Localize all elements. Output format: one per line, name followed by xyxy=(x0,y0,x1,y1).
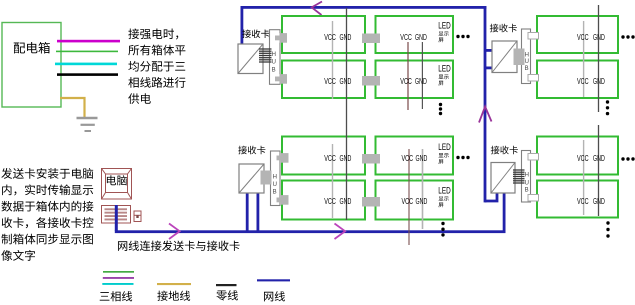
wire neutral N (black) xyxy=(57,73,118,76)
svg-text:GND: GND xyxy=(415,77,427,86)
svg-text:U: U xyxy=(273,182,277,188)
wire net: U4 out jog xyxy=(485,193,497,201)
svg-text:VCC: VCC xyxy=(577,154,589,163)
svg-text:LED: LED xyxy=(438,20,451,30)
legend label 网线 xyxy=(264,291,285,301)
svg-text:GND: GND xyxy=(340,154,352,163)
wire net: riser out of card U2 pin-out xyxy=(257,193,260,231)
wire VCC bus col1 bottom (gray) xyxy=(332,144,334,218)
LED cabinet box L1 (col1 row1) xyxy=(282,16,365,53)
svg-text:LED: LED xyxy=(438,185,451,195)
svg-text:LED: LED xyxy=(438,64,451,74)
svg-text:H: H xyxy=(273,175,277,181)
wire VCC bus col2 top (maroon) xyxy=(407,42,409,110)
receiver card U1 (top-left) with HUB xyxy=(238,29,287,84)
svg-text:B: B xyxy=(273,190,277,196)
annotation: three-phase supply note xyxy=(128,28,185,103)
svg-text:B: B xyxy=(525,66,529,72)
wire net: right vertical bus xyxy=(484,6,487,202)
arrow right on bottom bus 1 xyxy=(169,224,180,240)
ellipsis right of bottom col3 row1 xyxy=(621,157,624,160)
wire GND bus col2 bottom (gray) xyxy=(422,149,424,229)
legend net line swatch xyxy=(257,279,290,281)
connector tab col1-col2 row1 top xyxy=(362,34,380,44)
wire VCC bus col3 bottom (gray) xyxy=(583,140,585,215)
svg-text:VCC: VCC xyxy=(577,33,589,42)
legend neutral line swatch xyxy=(216,284,237,286)
annotation: sender card note xyxy=(1,168,93,261)
wire earth ground (olive) xyxy=(60,98,85,117)
wire net: riser into card U2 pin-in xyxy=(246,193,249,231)
svg-text:U: U xyxy=(525,59,529,65)
svg-text:VCC: VCC xyxy=(400,77,412,86)
wire phase L2 (green) xyxy=(56,51,118,53)
svg-text:VCC: VCC xyxy=(324,197,336,206)
wire net: top bus xyxy=(241,6,487,9)
wire GND bus col3 top (dark) xyxy=(598,5,600,112)
svg-text:U: U xyxy=(272,60,276,66)
receiver card U2 (bottom-left) with HUB xyxy=(238,146,288,206)
svg-text:VCC: VCC xyxy=(324,33,336,42)
receiver card U4 (bottom-right) with HUB xyxy=(491,146,539,202)
LED cabinet box L3 (col1 row3) xyxy=(282,137,365,175)
svg-text:VCC: VCC xyxy=(400,33,412,42)
svg-text:VCC: VCC xyxy=(577,77,589,86)
legend label 接地线 xyxy=(157,291,190,301)
wire GND bus col3 bottom (dark) xyxy=(598,125,600,216)
label LED display screen #4 xyxy=(438,185,451,207)
legend label 三相线 xyxy=(100,291,132,301)
LED cabinet box L11 (col3 row3) xyxy=(537,137,618,175)
svg-text:GND: GND xyxy=(593,154,605,163)
distribution box 配电箱 xyxy=(2,23,61,108)
svg-text:U: U xyxy=(525,181,529,187)
svg-text:GND: GND xyxy=(416,154,428,163)
wire net: stub to card U3 pin-in xyxy=(485,49,492,52)
wire net: bottom bus xyxy=(115,230,506,233)
computer mouse xyxy=(134,211,141,222)
wire VCC bus col2 bottom (maroon) xyxy=(408,149,410,245)
svg-text:B: B xyxy=(272,68,276,74)
svg-text:GND: GND xyxy=(340,197,352,206)
legend ground line swatch xyxy=(157,283,191,285)
svg-text:B: B xyxy=(525,188,529,194)
connector tab col1-col2 row1 bottom xyxy=(362,154,380,164)
svg-text:VCC: VCC xyxy=(577,197,589,206)
arrow up on right bus xyxy=(479,107,492,123)
svg-text:GND: GND xyxy=(593,33,605,42)
ellipsis right of L11 (more cabinets) xyxy=(621,35,624,38)
ellipsis right of bottom col2 row1 xyxy=(456,156,459,159)
LED cabinet box L10 (col3 row2) xyxy=(537,61,618,99)
svg-text:GND: GND xyxy=(593,197,605,206)
ellipsis right of L3 (more cabinets) xyxy=(456,35,459,38)
ellipsis below col3 row2 bottom xyxy=(606,221,609,224)
wire net: drop to card U1 xyxy=(241,6,244,44)
LED cabinet box L6 (col2 row2) xyxy=(376,61,454,99)
LED cabinet box L4 (col1 row4) xyxy=(282,181,365,220)
svg-text:H: H xyxy=(525,173,529,179)
receiver card U3 (top-right) with HUB xyxy=(490,24,539,84)
svg-text:VCC: VCC xyxy=(324,154,336,163)
svg-text:VCC: VCC xyxy=(324,77,336,86)
label LED display screen #3 xyxy=(438,142,451,164)
svg-text:GND: GND xyxy=(593,77,605,86)
computer monitor xyxy=(102,169,132,200)
wire GND bus col1 (dark) xyxy=(346,8,348,220)
svg-text:VCC: VCC xyxy=(402,154,414,163)
legend label 零线 xyxy=(216,290,238,300)
svg-text:LED: LED xyxy=(438,142,451,152)
LED cabinet box L9 (col3 row1) xyxy=(537,16,618,53)
wire VCC bus col3 top (gray) xyxy=(583,21,585,97)
LED cabinet box L5 (col2 row1) xyxy=(376,16,454,53)
svg-text:GND: GND xyxy=(340,33,352,42)
svg-text:H: H xyxy=(525,53,529,59)
legend three-phase lines swatch xyxy=(102,271,134,285)
wire VCC bus col1 top (gray) xyxy=(332,21,334,99)
caption: 网线连接发送卡与接收卡 xyxy=(118,241,240,251)
wire net: riser into card U4 pin-in xyxy=(503,193,506,231)
LED cabinet box L12 (col3 row4) xyxy=(537,181,618,218)
LED cabinet box L2 (col1 row2) xyxy=(282,61,365,99)
svg-text:VCC: VCC xyxy=(402,197,414,206)
computer case xyxy=(102,206,131,224)
svg-text:GND: GND xyxy=(415,33,427,42)
arrow left on top bus xyxy=(312,2,322,16)
ellipsis below L4 xyxy=(439,103,442,106)
wire phase L3 (cyan) xyxy=(55,63,117,66)
wire net: stub to card U3 pin-out xyxy=(485,67,492,70)
label LED display screen #1 xyxy=(438,20,451,42)
svg-text:GND: GND xyxy=(340,77,352,86)
ground symbol xyxy=(77,118,98,131)
arrow right on bottom bus 2 xyxy=(335,224,346,240)
LED cabinet box L8 (col2 row4) xyxy=(376,181,454,220)
label LED display screen #2 xyxy=(438,64,451,86)
ellipsis below col2 row2 bottom xyxy=(441,222,444,225)
wire net: computer drop xyxy=(115,205,118,231)
wire GND bus col2 top (dark) xyxy=(421,42,423,109)
label 电脑 xyxy=(107,175,127,185)
connector tab col1-col2 row2 top xyxy=(362,76,380,86)
wire phase L1 (magenta) xyxy=(57,40,120,43)
connector tab col1-col2 row2 bottom xyxy=(362,197,380,207)
LED cabinet box L7 (col2 row3) xyxy=(376,137,454,175)
svg-text:H: H xyxy=(272,52,276,58)
svg-text:GND: GND xyxy=(416,197,428,206)
ellipsis below L12 top xyxy=(606,100,609,103)
